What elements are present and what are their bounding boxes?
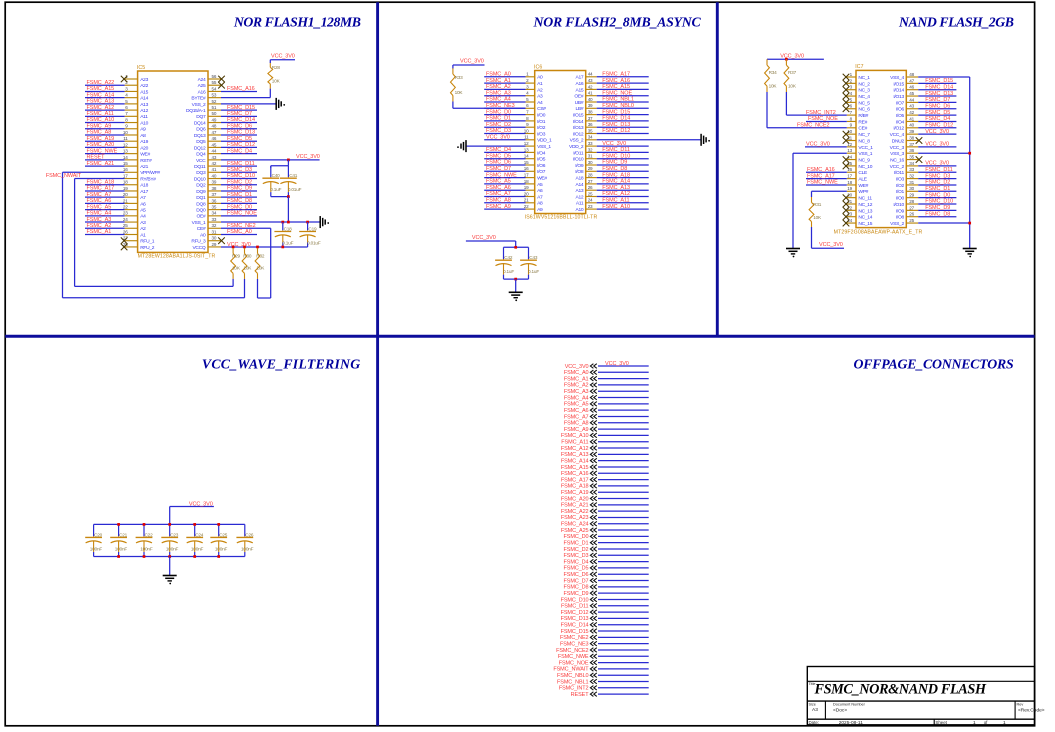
svg-text:FSMC_D1: FSMC_D1 — [227, 192, 252, 198]
svg-text:FSMC_NOE: FSMC_NOE — [602, 90, 632, 96]
svg-text:FSMC_A14: FSMC_A14 — [87, 92, 115, 98]
svg-text:FSMC_D8: FSMC_D8 — [564, 585, 589, 591]
svg-text:FSMC_D12: FSMC_D12 — [561, 610, 589, 616]
svg-text:37: 37 — [212, 192, 217, 197]
svg-text:DNU2: DNU2 — [892, 138, 905, 144]
svg-text:FSMC_D14: FSMC_D14 — [227, 117, 255, 123]
svg-text:VSS_1: VSS_1 — [537, 144, 551, 150]
svg-text:25: 25 — [123, 223, 128, 228]
svg-text:FSMC_A9: FSMC_A9 — [87, 123, 112, 129]
svg-text:FSMC_D4: FSMC_D4 — [486, 147, 511, 153]
svg-text:DQ0: DQ0 — [196, 208, 206, 214]
svg-text:FSMC_A8: FSMC_A8 — [486, 198, 511, 204]
svg-text:FSMC_A11: FSMC_A11 — [561, 440, 588, 446]
svg-text:16: 16 — [524, 166, 529, 171]
svg-text:FSMC_D6: FSMC_D6 — [925, 103, 950, 109]
svg-text:A5: A5 — [537, 182, 543, 188]
svg-text:FSMC_NWAIT: FSMC_NWAIT — [46, 173, 82, 179]
svg-text:NC_13: NC_13 — [858, 208, 872, 214]
svg-text:21: 21 — [524, 198, 529, 203]
svg-text:14: 14 — [524, 154, 529, 159]
svg-text:14: 14 — [123, 155, 128, 160]
svg-text:A9: A9 — [537, 207, 543, 213]
svg-text:A8: A8 — [537, 201, 543, 207]
svg-text:41: 41 — [588, 91, 593, 96]
svg-text:C18: C18 — [284, 227, 293, 232]
svg-text:FSMC_D4: FSMC_D4 — [227, 148, 252, 154]
svg-text:RY/BY#: RY/BY# — [140, 176, 156, 182]
svg-text:VCC_3: VCC_3 — [890, 145, 905, 151]
svg-text:FSMC_A2: FSMC_A2 — [486, 84, 511, 90]
svg-text:44: 44 — [212, 149, 217, 154]
svg-text:FSMC_D10: FSMC_D10 — [227, 173, 255, 179]
svg-text:C43: C43 — [529, 255, 538, 260]
svg-text:VCC_4: VCC_4 — [890, 132, 905, 138]
svg-text:FSMC_D11: FSMC_D11 — [925, 167, 953, 173]
svg-text:VSS_1: VSS_1 — [858, 151, 872, 157]
svg-text:49: 49 — [212, 117, 217, 122]
svg-text:C23: C23 — [170, 532, 179, 537]
svg-text:A13: A13 — [140, 102, 148, 108]
svg-text:R30: R30 — [243, 253, 252, 258]
svg-text:A6: A6 — [140, 201, 146, 207]
svg-text:VCC_3V0: VCC_3V0 — [780, 54, 804, 60]
svg-text:46: 46 — [909, 85, 914, 90]
svg-text:15: 15 — [524, 160, 529, 165]
svg-text:I/O12: I/O12 — [893, 126, 904, 132]
svg-text:45: 45 — [212, 142, 217, 147]
svg-text:FSMC_A21: FSMC_A21 — [561, 503, 589, 509]
svg-text:FSMC_D1: FSMC_D1 — [564, 540, 589, 546]
svg-text:A9: A9 — [140, 127, 146, 133]
svg-text:23: 23 — [123, 211, 128, 216]
svg-text:UB#: UB# — [575, 100, 584, 106]
svg-text:A1: A1 — [537, 81, 543, 87]
svg-text:VDD_2: VDD_2 — [569, 144, 584, 150]
svg-text:36: 36 — [588, 122, 593, 127]
svg-text:FSMC_A11: FSMC_A11 — [87, 111, 114, 117]
svg-text:FSMC_A14: FSMC_A14 — [561, 458, 589, 464]
svg-text:VCCQ: VCCQ — [192, 245, 205, 251]
svg-text:FSMC_A4: FSMC_A4 — [486, 97, 511, 103]
svg-text:39: 39 — [588, 103, 593, 108]
svg-text:10K: 10K — [813, 215, 822, 220]
svg-text:I/O2: I/O2 — [537, 125, 546, 131]
svg-text:FSMC_A4: FSMC_A4 — [564, 395, 589, 401]
svg-text:A22: A22 — [140, 83, 148, 89]
svg-text:FSMC_A13: FSMC_A13 — [87, 99, 115, 105]
svg-text:13: 13 — [847, 148, 852, 153]
svg-text:0.1uF: 0.1uF — [270, 187, 281, 192]
svg-text:10K: 10K — [272, 79, 281, 84]
svg-text:FSMC_A10: FSMC_A10 — [602, 204, 630, 210]
svg-text:VCC_3V0: VCC_3V0 — [189, 502, 213, 508]
svg-text:FSMC_INT2: FSMC_INT2 — [559, 686, 589, 692]
svg-text:I/O5: I/O5 — [896, 113, 905, 119]
svg-text:12: 12 — [847, 142, 852, 147]
svg-text:A19: A19 — [140, 139, 148, 145]
svg-text:FSMC_D9: FSMC_D9 — [564, 591, 589, 597]
svg-text:C22: C22 — [145, 532, 154, 537]
svg-text:FSMC_D3: FSMC_D3 — [925, 173, 950, 179]
svg-text:FSMC_NWE: FSMC_NWE — [807, 180, 838, 186]
svg-text:I/O11: I/O11 — [573, 150, 584, 156]
svg-text:FSMC_D10: FSMC_D10 — [925, 199, 953, 205]
svg-text:I/O1: I/O1 — [537, 119, 546, 125]
svg-text:100nF: 100nF — [215, 546, 228, 551]
svg-text:A13: A13 — [575, 188, 583, 194]
svg-text:FSMC_A22: FSMC_A22 — [87, 80, 115, 86]
svg-text:40: 40 — [909, 123, 914, 128]
svg-text:FSMC_D7: FSMC_D7 — [925, 97, 950, 103]
svg-text:IC6: IC6 — [534, 64, 542, 70]
svg-text:FSMC_NOE: FSMC_NOE — [227, 211, 257, 217]
svg-text:FSMC_NWE: FSMC_NWE — [558, 654, 589, 660]
svg-text:FSMC_D11: FSMC_D11 — [602, 147, 630, 153]
svg-text:I/O10: I/O10 — [573, 157, 584, 163]
svg-text:FSMC_A7: FSMC_A7 — [87, 192, 112, 198]
svg-text:A4: A4 — [140, 214, 146, 220]
svg-text:25: 25 — [588, 191, 593, 196]
svg-text:A17: A17 — [140, 189, 148, 195]
svg-text:FSMC_A9: FSMC_A9 — [486, 204, 511, 210]
svg-text:Sheet: Sheet — [935, 720, 947, 725]
svg-text:I/O0: I/O0 — [537, 113, 546, 119]
svg-text:43: 43 — [212, 155, 217, 160]
svg-text:29: 29 — [588, 166, 593, 171]
svg-text:100nF: 100nF — [191, 546, 204, 551]
svg-text:RESET: RESET — [571, 692, 590, 698]
svg-text:A10: A10 — [140, 120, 148, 126]
svg-text:I/O14: I/O14 — [573, 119, 584, 125]
svg-text:OFFPAGE_CONNECTORS: OFFPAGE_CONNECTORS — [854, 357, 1014, 372]
svg-text:NOR FLASH2_8MB_ASYNC: NOR FLASH2_8MB_ASYNC — [533, 15, 702, 30]
svg-text:FSMC_D13: FSMC_D13 — [227, 130, 255, 136]
svg-text:43: 43 — [909, 104, 914, 109]
svg-text:51: 51 — [212, 105, 217, 110]
svg-text:A11: A11 — [576, 201, 584, 207]
svg-text:FSMC_D10: FSMC_D10 — [602, 153, 630, 159]
svg-text:27: 27 — [909, 205, 914, 210]
svg-text:48: 48 — [212, 124, 217, 129]
svg-text:RFU_2: RFU_2 — [140, 245, 155, 251]
svg-text:100nF: 100nF — [241, 546, 254, 551]
svg-text:I/O7: I/O7 — [896, 100, 905, 106]
svg-text:I/O5: I/O5 — [537, 157, 546, 163]
svg-text:A10: A10 — [575, 207, 583, 213]
svg-text:NC_12: NC_12 — [858, 202, 872, 208]
svg-text:DQ10: DQ10 — [194, 176, 206, 182]
svg-text:34: 34 — [588, 135, 593, 140]
svg-text:FSMC_A16: FSMC_A16 — [561, 471, 589, 477]
svg-text:VCC_3V0: VCC_3V0 — [296, 154, 320, 160]
svg-text:33: 33 — [212, 217, 217, 222]
svg-text:WE#: WE# — [858, 183, 868, 189]
svg-text:R29: R29 — [232, 253, 241, 258]
svg-text:FSMC_A17: FSMC_A17 — [602, 72, 630, 78]
svg-text:R31: R31 — [813, 202, 822, 207]
svg-text:A14: A14 — [140, 96, 148, 102]
svg-text:100nF: 100nF — [115, 546, 128, 551]
svg-text:VSS_2: VSS_2 — [890, 221, 904, 227]
svg-text:DQ3: DQ3 — [196, 170, 206, 176]
svg-text:A23: A23 — [140, 77, 148, 83]
svg-text:10K: 10K — [769, 84, 778, 89]
svg-text:DQ8: DQ8 — [196, 201, 206, 207]
svg-text:FSMC_A19: FSMC_A19 — [561, 490, 589, 496]
svg-text:FSMC_A6: FSMC_A6 — [486, 185, 511, 191]
svg-text:FSMC_A15: FSMC_A15 — [561, 465, 589, 471]
svg-text:35: 35 — [588, 128, 593, 133]
svg-text:FSMC_NWAIT: FSMC_NWAIT — [553, 667, 589, 673]
svg-text:FSMC_NE2: FSMC_NE2 — [560, 635, 589, 641]
svg-text:FSMC_D5: FSMC_D5 — [564, 566, 589, 572]
svg-text:WE#: WE# — [537, 176, 547, 182]
svg-text:FSMC_D1: FSMC_D1 — [486, 116, 511, 122]
svg-text:A12: A12 — [575, 194, 583, 200]
svg-text:38: 38 — [212, 186, 217, 191]
svg-text:100nF: 100nF — [140, 546, 153, 551]
svg-text:R32: R32 — [256, 253, 265, 258]
svg-text:FSMC_A3: FSMC_A3 — [564, 389, 589, 395]
svg-text:1: 1 — [1003, 720, 1006, 726]
svg-text:FSMC_D5: FSMC_D5 — [486, 153, 511, 159]
svg-text:100nF: 100nF — [90, 546, 103, 551]
svg-text:VCC_3V0: VCC_3V0 — [460, 59, 484, 65]
svg-text:I/O11: I/O11 — [894, 170, 905, 176]
svg-text:31: 31 — [588, 154, 593, 159]
svg-text:FSMC_NOE: FSMC_NOE — [808, 116, 838, 122]
svg-text:44: 44 — [588, 72, 593, 77]
svg-text:CE#: CE# — [197, 226, 206, 232]
svg-text:R37: R37 — [788, 70, 797, 75]
svg-text:FSMC_NCE2: FSMC_NCE2 — [797, 123, 829, 129]
svg-text:A6: A6 — [537, 188, 543, 194]
svg-text:37: 37 — [588, 116, 593, 121]
svg-text:FSMC_A24: FSMC_A24 — [561, 522, 589, 528]
svg-text:36: 36 — [909, 148, 914, 153]
svg-text:FSMC_D8: FSMC_D8 — [602, 166, 627, 172]
svg-text:FSMC_A18: FSMC_A18 — [87, 179, 115, 185]
svg-text:50: 50 — [212, 111, 217, 116]
svg-text:42: 42 — [909, 110, 914, 115]
svg-text:I/O14: I/O14 — [893, 88, 904, 94]
svg-text:FSMC_A21: FSMC_A21 — [87, 161, 115, 167]
svg-text:FSMC_D5: FSMC_D5 — [925, 110, 950, 116]
svg-text:OE#: OE# — [574, 94, 583, 100]
svg-text:FSMC_D9: FSMC_D9 — [602, 160, 627, 166]
svg-text:15: 15 — [123, 161, 128, 166]
svg-text:20: 20 — [123, 192, 128, 197]
svg-text:48: 48 — [909, 72, 914, 77]
svg-text:I/O8: I/O8 — [896, 215, 905, 221]
svg-text:A11: A11 — [140, 114, 148, 120]
svg-text:FSMC_D6: FSMC_D6 — [564, 572, 589, 578]
svg-text:CS#: CS# — [537, 106, 546, 112]
svg-text:FSMC_D5: FSMC_D5 — [227, 136, 252, 142]
svg-text:FSMC_A12: FSMC_A12 — [602, 191, 630, 197]
svg-text:FSMC_D8: FSMC_D8 — [227, 198, 252, 204]
svg-text:10K: 10K — [788, 84, 797, 89]
svg-text:45: 45 — [909, 91, 914, 96]
svg-text:17: 17 — [847, 174, 852, 179]
svg-text:26: 26 — [123, 229, 128, 234]
svg-text:32: 32 — [909, 174, 914, 179]
svg-text:I/O9: I/O9 — [575, 163, 584, 169]
svg-text:FSMC_NBL1: FSMC_NBL1 — [557, 679, 589, 685]
svg-text:MT29F2G08ABAEAWP-AATX_E_TR: MT29F2G08ABAEAWP-AATX_E_TR — [834, 229, 923, 235]
svg-text:FSMC_A18: FSMC_A18 — [561, 484, 589, 490]
svg-text:0.01uF: 0.01uF — [307, 241, 321, 246]
svg-text:DQ15/A-1: DQ15/A-1 — [186, 108, 206, 114]
svg-text:FSMC_D14: FSMC_D14 — [561, 623, 589, 629]
svg-text:FSMC_A11: FSMC_A11 — [602, 198, 629, 204]
svg-text:0.1uF: 0.1uF — [528, 269, 539, 274]
svg-text:28: 28 — [588, 173, 593, 178]
svg-text:NC_10: NC_10 — [858, 164, 872, 170]
svg-text:35: 35 — [212, 205, 217, 210]
svg-text:FSMC_A1: FSMC_A1 — [486, 78, 511, 84]
svg-text:A7: A7 — [537, 194, 543, 200]
svg-text:16: 16 — [847, 167, 852, 172]
svg-text:I/O8: I/O8 — [575, 169, 584, 175]
svg-text:NC_6: NC_6 — [858, 107, 870, 113]
svg-text:I/O4: I/O4 — [896, 119, 905, 125]
svg-text:R28: R28 — [272, 65, 281, 70]
svg-text:RESET: RESET — [87, 155, 106, 161]
svg-text:I/O2: I/O2 — [896, 183, 905, 189]
svg-text:DQ6: DQ6 — [196, 127, 206, 133]
svg-text:FSMC_D0: FSMC_D0 — [486, 109, 511, 115]
svg-text:<Doc>: <Doc> — [833, 708, 847, 714]
svg-text:28: 28 — [909, 199, 914, 204]
svg-text:31: 31 — [909, 180, 914, 185]
svg-text:FSMC_D0: FSMC_D0 — [925, 192, 950, 198]
svg-text:23: 23 — [588, 204, 593, 209]
svg-text:FSMC_A17: FSMC_A17 — [561, 477, 589, 483]
svg-text:<Rev.Code>: <Rev.Code> — [1018, 708, 1045, 714]
svg-text:C26: C26 — [245, 532, 254, 537]
svg-text:2025-08-11: 2025-08-11 — [839, 720, 864, 726]
svg-text:NC_16: NC_16 — [890, 157, 904, 163]
svg-text:FSMC_D0: FSMC_D0 — [564, 534, 589, 540]
svg-text:RST#: RST# — [140, 158, 152, 164]
svg-text:VSS_4: VSS_4 — [890, 75, 904, 81]
svg-text:53: 53 — [212, 93, 217, 98]
svg-text:10: 10 — [524, 128, 529, 133]
svg-text:10K: 10K — [232, 265, 241, 270]
svg-text:FSMC_D0: FSMC_D0 — [227, 204, 252, 210]
svg-text:FSMC_A0: FSMC_A0 — [486, 72, 511, 78]
svg-text:FSMC_A15: FSMC_A15 — [602, 84, 630, 90]
svg-text:FSMC_A0: FSMC_A0 — [227, 229, 252, 235]
svg-text:FSMC_A16: FSMC_A16 — [602, 78, 630, 84]
svg-text:FSMC_D3: FSMC_D3 — [486, 128, 511, 134]
svg-text:FSMC_D14: FSMC_D14 — [602, 116, 630, 122]
svg-text:18: 18 — [123, 180, 128, 185]
svg-text:FSMC_A8: FSMC_A8 — [564, 421, 589, 427]
svg-text:FSMC_D4: FSMC_D4 — [925, 116, 950, 122]
svg-text:VPP/WP#: VPP/WP# — [140, 170, 160, 176]
svg-text:FSMC_D7: FSMC_D7 — [486, 166, 511, 172]
svg-text:0.1uF: 0.1uF — [503, 269, 514, 274]
svg-text:DQ1: DQ1 — [196, 195, 206, 201]
svg-text:VCC_3V0: VCC_3V0 — [925, 129, 949, 135]
svg-text:A24: A24 — [198, 77, 206, 83]
svg-text:25: 25 — [909, 218, 914, 223]
svg-text:55: 55 — [212, 80, 217, 85]
svg-text:FSMC_D2: FSMC_D2 — [486, 122, 511, 128]
svg-text:I/O4: I/O4 — [537, 150, 546, 156]
svg-text:A14: A14 — [575, 182, 583, 188]
svg-text:C20: C20 — [94, 532, 103, 537]
svg-text:FSMC_A23: FSMC_A23 — [561, 515, 589, 521]
svg-text:38: 38 — [588, 110, 593, 115]
svg-text:30: 30 — [588, 160, 593, 165]
svg-text:19: 19 — [847, 186, 852, 191]
svg-text:39: 39 — [909, 129, 914, 134]
svg-text:MT28EW128ABA1LJS-0SIT_TR: MT28EW128ABA1LJS-0SIT_TR — [138, 254, 216, 260]
svg-text:A25: A25 — [198, 83, 206, 89]
svg-text:I/O3: I/O3 — [896, 177, 905, 183]
svg-text:A12: A12 — [140, 108, 148, 114]
svg-text:I/O6: I/O6 — [537, 163, 546, 169]
svg-text:21: 21 — [123, 198, 128, 203]
svg-text:24: 24 — [588, 198, 593, 203]
svg-text:FSMC_A2: FSMC_A2 — [564, 383, 589, 389]
svg-text:VCC_3V0: VCC_3V0 — [925, 161, 949, 167]
svg-text:A20: A20 — [140, 145, 148, 151]
svg-text:I/O12: I/O12 — [573, 131, 584, 137]
svg-text:C21: C21 — [119, 532, 128, 537]
svg-text:38: 38 — [909, 135, 914, 140]
svg-text:I/O0: I/O0 — [896, 196, 905, 202]
svg-text:A5: A5 — [140, 208, 146, 214]
svg-text:VCC_2: VCC_2 — [890, 164, 905, 170]
svg-text:13: 13 — [123, 149, 128, 154]
svg-text:FSMC_D6: FSMC_D6 — [227, 123, 252, 129]
svg-text:FSMC_A1: FSMC_A1 — [564, 376, 589, 382]
svg-text:A4: A4 — [537, 100, 543, 106]
svg-text:DQ9: DQ9 — [196, 189, 206, 195]
svg-text:A15: A15 — [575, 87, 583, 93]
svg-text:FSMC_D9: FSMC_D9 — [925, 205, 950, 211]
svg-text:FSMC_A6: FSMC_A6 — [87, 198, 112, 204]
svg-text:I/O1: I/O1 — [896, 189, 905, 195]
svg-text:27: 27 — [588, 179, 593, 184]
svg-text:NC_11: NC_11 — [858, 196, 872, 202]
svg-text:C19: C19 — [308, 227, 317, 232]
svg-text:VCC_1: VCC_1 — [858, 145, 873, 151]
svg-text:NC_8: NC_8 — [858, 138, 870, 144]
svg-text:41: 41 — [909, 116, 914, 121]
svg-text:18: 18 — [847, 180, 852, 185]
svg-text:CE#: CE# — [858, 126, 867, 132]
svg-text:FSMC_D10: FSMC_D10 — [561, 597, 589, 603]
svg-text:22: 22 — [123, 205, 128, 210]
svg-text:VCC_3V0: VCC_3V0 — [486, 135, 510, 141]
svg-text:FSMC_D7: FSMC_D7 — [227, 111, 252, 117]
svg-text:FSMC_D14: FSMC_D14 — [925, 84, 953, 90]
svg-text:DQ11: DQ11 — [194, 164, 206, 170]
svg-text:FSMC_A13: FSMC_A13 — [561, 452, 589, 458]
svg-text:A3: A3 — [140, 220, 146, 226]
svg-text:FSMC_NOE: FSMC_NOE — [559, 660, 589, 666]
svg-text:12: 12 — [524, 141, 529, 146]
svg-text:FSMC_D1: FSMC_D1 — [925, 186, 950, 192]
svg-text:32: 32 — [212, 223, 217, 228]
svg-text:A2: A2 — [140, 226, 146, 232]
